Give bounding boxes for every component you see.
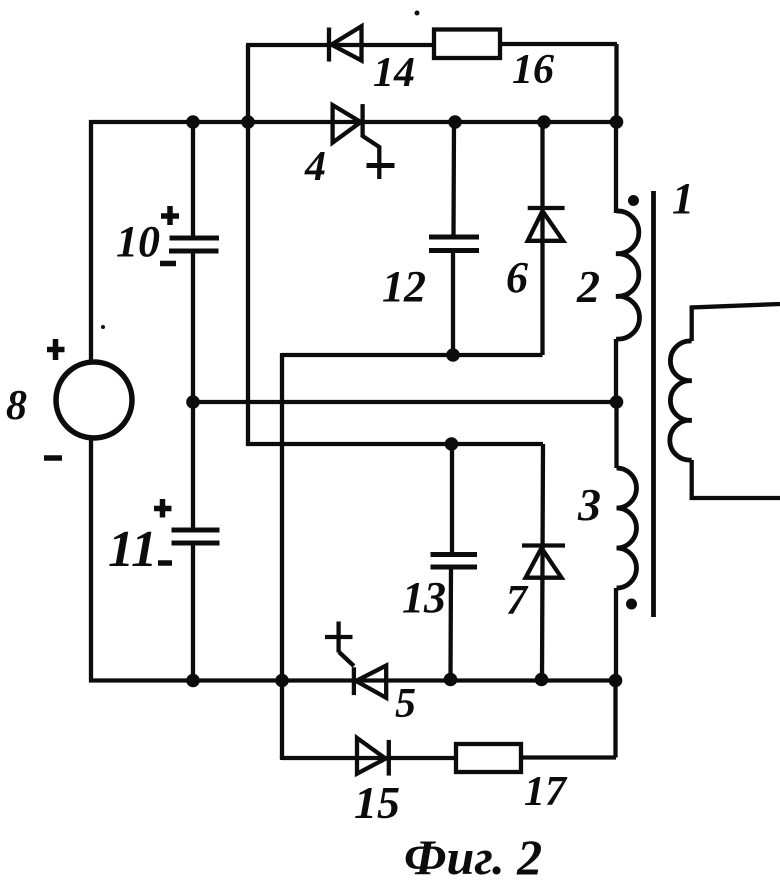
- source 8 minus sign: [44, 455, 62, 461]
- wire lower cross rail (thyristor 4 cathode net): [246, 442, 543, 446]
- svg-text:3: 3: [577, 479, 601, 530]
- svg-text:10: 10: [116, 217, 160, 266]
- transformer winding 3 bottom lead: [614, 588, 618, 681]
- junction node bottom rail / cap 11: [186, 674, 200, 688]
- svg-text:11: 11: [108, 521, 157, 578]
- wire upper cross rail (thyristor 5 anode net): [282, 353, 543, 357]
- wire diode 6 top lead: [540, 122, 544, 355]
- svg-text:1: 1: [672, 174, 694, 223]
- svg-text:5: 5: [395, 681, 416, 727]
- resistor 17: [456, 744, 521, 772]
- resistor 16: [434, 30, 500, 59]
- wire capacitor 13 top lead: [450, 444, 454, 555]
- svg-text:15: 15: [354, 777, 400, 828]
- transformer core: [651, 191, 656, 617]
- junction node bottom rail / cap 13: [444, 673, 458, 687]
- wire center tap rail: [193, 400, 617, 404]
- capacitor 10 minus sign: [160, 261, 176, 267]
- capacitor 11 plus sign: [154, 499, 172, 518]
- junction node top rail / diode 6: [537, 115, 551, 129]
- transformer winding 3 top lead: [614, 402, 618, 468]
- junction node top rail / top loop: [241, 115, 255, 129]
- junction node top rail / winding 2: [610, 115, 624, 129]
- svg-text:2: 2: [576, 261, 600, 312]
- capacitor 11 minus sign: [158, 560, 172, 566]
- wire top rail: [89, 120, 617, 124]
- svg-text:17: 17: [524, 769, 568, 815]
- scan speck: [101, 325, 105, 329]
- capacitor 10: [169, 238, 219, 251]
- diode 15: [357, 738, 389, 776]
- source 8 plus sign: [47, 339, 65, 360]
- wire from resistor 16 to right corner: [500, 42, 617, 46]
- wire diode 7 top lead: [542, 444, 543, 680]
- transformer winding 3: [617, 468, 637, 588]
- capacitor 11: [172, 530, 220, 543]
- transformer winding 2: [616, 211, 639, 339]
- svg-text:12: 12: [382, 262, 426, 311]
- wire capacitor 13 bottom lead: [448, 567, 453, 680]
- wire capacitor 12 top lead: [451, 122, 456, 237]
- diode 7: [522, 546, 565, 578]
- wire from resistor 17 to right corner: [521, 755, 616, 759]
- junction node bottom rail / long vertical: [275, 674, 289, 688]
- junction node center tap left: [186, 395, 200, 409]
- wire long vertical from upper cross rail to bottom loop: [280, 353, 284, 758]
- wire top feedback loop right vertical: [614, 44, 618, 122]
- svg-text:8: 8: [6, 383, 27, 429]
- wire capacitor 10 bottom lead: [191, 251, 195, 403]
- capacitor 10 plus sign: [161, 206, 179, 225]
- svg-text:14: 14: [373, 50, 415, 96]
- capacitor 13: [431, 555, 478, 568]
- wire left vertical upper (source 8 top lead): [89, 120, 93, 363]
- svg-text:7: 7: [506, 578, 529, 624]
- wire top feedback loop left vertical: [246, 45, 250, 122]
- wire bottom loop left vertical: [280, 756, 284, 760]
- wire left vertical lower (source 8 bottom lead): [89, 437, 93, 682]
- wire bottom rail: [89, 678, 616, 682]
- thyristor 4: [333, 104, 395, 179]
- wire capacitor branch vertical upper (cap 10 top lead): [191, 122, 195, 238]
- diode 14: [329, 26, 362, 61]
- junction node top rail / cap 10: [186, 115, 200, 129]
- junction node bottom rail / diode 7: [535, 673, 549, 687]
- wire bottom loop horizontal left segment: [282, 756, 456, 760]
- junction node top rail / cap 12: [448, 115, 462, 129]
- svg-text:4: 4: [304, 144, 326, 190]
- source 8: [56, 362, 132, 438]
- scan speck: [415, 11, 420, 16]
- diode 6: [528, 208, 565, 241]
- transformer secondary winding 1 top lead: [692, 304, 780, 341]
- svg-text:13: 13: [402, 573, 446, 622]
- junction node lower cross rail / cap 13: [445, 437, 459, 451]
- junction node bottom rail / winding 3: [609, 674, 623, 688]
- junction node center tap right: [610, 395, 624, 409]
- capacitor 12: [429, 237, 479, 251]
- wire capacitor 11 bottom lead: [191, 543, 195, 682]
- wire bottom loop right vertical: [613, 680, 617, 758]
- svg-text:16: 16: [512, 47, 554, 93]
- wire vertical from top rail down to lower cross rail: [246, 122, 250, 446]
- junction node upper cross rail / cap 12: [446, 348, 460, 362]
- transformer secondary winding 1: [670, 341, 692, 460]
- transformer winding 3 phase dot: [626, 599, 637, 610]
- wire capacitor 12 bottom lead: [451, 251, 455, 356]
- transformer winding 2 bottom lead: [614, 339, 618, 403]
- transformer secondary winding 1 bottom lead: [692, 460, 780, 498]
- svg-text:6: 6: [506, 253, 528, 302]
- wire capacitor 11 top lead: [191, 402, 195, 530]
- svg-text:Фиг. 2: Фиг. 2: [404, 829, 542, 882]
- transformer winding 2 phase dot: [628, 195, 639, 206]
- wire top feedback loop horizontal left segment: [246, 43, 434, 47]
- thyristor 5: [325, 622, 386, 698]
- transformer winding 2 top lead: [614, 122, 618, 213]
